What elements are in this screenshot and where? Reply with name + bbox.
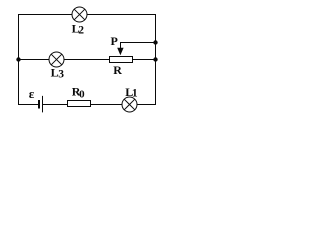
svg-text:P: P	[111, 34, 118, 48]
lamp L2	[72, 7, 87, 22]
rheostat R	[110, 57, 133, 63]
wire top rail	[18, 14, 156, 16]
wire wiper to right rail	[121, 43, 157, 49]
svg-text:2: 2	[78, 25, 84, 37]
wire left rail	[18, 14, 20, 105]
wire right rail	[155, 14, 157, 105]
wire bottom rail right of battery	[43, 104, 157, 106]
lamp L3	[49, 52, 64, 67]
svg-text:ε: ε	[29, 86, 35, 101]
node: wiper wire to right rail	[153, 40, 157, 44]
battery cell	[38, 96, 43, 113]
wire middle rail	[18, 59, 156, 61]
lamp L1	[122, 97, 137, 112]
node: middle rail to left rail	[16, 57, 20, 61]
svg-text:0: 0	[79, 89, 85, 101]
resistor R0	[68, 101, 91, 107]
svg-text:1: 1	[132, 88, 138, 100]
node: middle rail to right rail	[153, 57, 157, 61]
wire bottom rail left of battery	[18, 104, 38, 106]
svg-text:R: R	[113, 63, 122, 77]
wiper arrow P	[117, 48, 123, 55]
svg-text:3: 3	[58, 69, 64, 81]
